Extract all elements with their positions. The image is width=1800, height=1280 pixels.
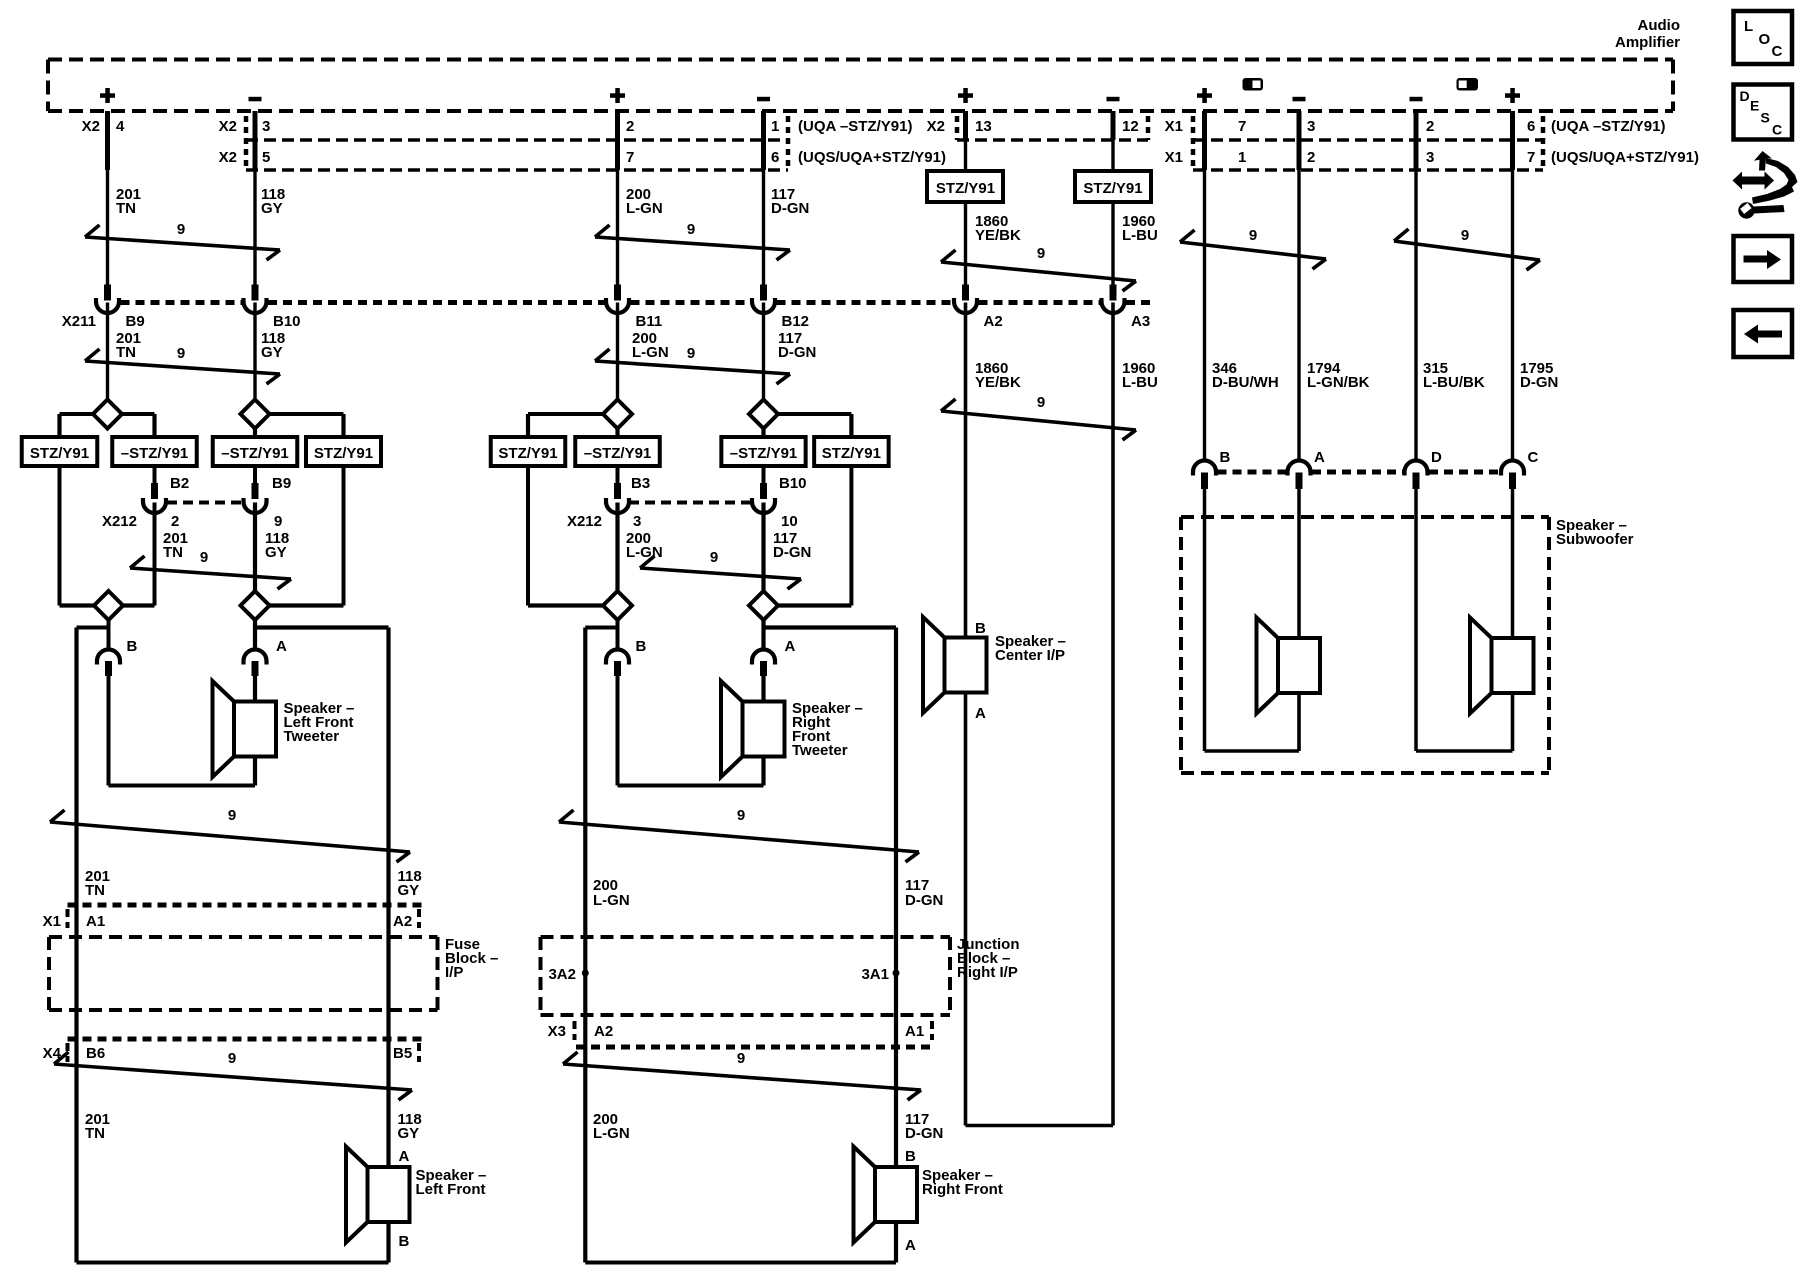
svg-text:1: 1 xyxy=(771,118,779,135)
svg-text:L-GN: L-GN xyxy=(593,892,630,909)
svg-text:B2: B2 xyxy=(170,475,189,492)
svg-text:7: 7 xyxy=(1238,118,1246,135)
svg-text:A: A xyxy=(905,1237,916,1254)
svg-text:X3: X3 xyxy=(548,1023,566,1040)
svg-text:GY: GY xyxy=(261,200,283,217)
svg-text:3A2: 3A2 xyxy=(548,966,576,983)
svg-text:STZ/Y91: STZ/Y91 xyxy=(498,445,557,462)
svg-text:D-GN: D-GN xyxy=(778,344,816,361)
svg-text:STZ/Y91: STZ/Y91 xyxy=(1083,180,1142,197)
svg-text:A1: A1 xyxy=(905,1023,924,1040)
svg-text:9: 9 xyxy=(1461,227,1469,244)
svg-text:B5: B5 xyxy=(393,1045,412,1062)
svg-text:A: A xyxy=(276,638,287,655)
svg-text:S: S xyxy=(1761,110,1770,126)
svg-text:YE/BK: YE/BK xyxy=(975,374,1021,391)
svg-text:L-GN: L-GN xyxy=(593,1125,630,1142)
svg-text:B10: B10 xyxy=(779,475,807,492)
svg-text:YE/BK: YE/BK xyxy=(975,227,1021,244)
svg-text:Audio: Audio xyxy=(1638,17,1681,34)
svg-text:TN: TN xyxy=(85,882,105,899)
svg-text:7: 7 xyxy=(626,149,634,166)
svg-text:X1: X1 xyxy=(43,913,61,930)
svg-text:B11: B11 xyxy=(636,313,663,330)
svg-text:STZ/Y91: STZ/Y91 xyxy=(822,445,881,462)
svg-text:B: B xyxy=(905,1148,916,1165)
svg-text:A: A xyxy=(785,638,796,655)
svg-text:Left Front: Left Front xyxy=(416,1181,486,1198)
svg-text:B12: B12 xyxy=(782,313,810,330)
svg-text:GY: GY xyxy=(398,882,420,899)
svg-text:2: 2 xyxy=(1426,118,1434,135)
svg-text:X2: X2 xyxy=(219,118,237,135)
svg-text:7: 7 xyxy=(1527,149,1535,166)
svg-text:X212: X212 xyxy=(567,513,602,530)
svg-text:L-BU: L-BU xyxy=(1122,374,1158,391)
svg-text:D: D xyxy=(1740,88,1750,104)
svg-text:X2: X2 xyxy=(219,149,237,166)
svg-text:A: A xyxy=(975,705,986,722)
svg-text:9: 9 xyxy=(710,549,718,566)
svg-text:C: C xyxy=(1772,43,1783,60)
svg-text:L-GN: L-GN xyxy=(626,544,663,561)
svg-text:B: B xyxy=(975,620,986,637)
svg-text:12: 12 xyxy=(1122,118,1139,135)
svg-text:L-BU: L-BU xyxy=(1122,227,1158,244)
svg-text:A3: A3 xyxy=(1131,313,1150,330)
svg-text:D-GN: D-GN xyxy=(905,1125,943,1142)
svg-text:D-GN: D-GN xyxy=(773,544,811,561)
svg-text:3: 3 xyxy=(262,118,270,135)
svg-text:B9: B9 xyxy=(126,313,145,330)
svg-text:Amplifier: Amplifier xyxy=(1615,34,1680,51)
svg-text:B: B xyxy=(127,638,138,655)
svg-text:3: 3 xyxy=(1426,149,1434,166)
svg-text:–STZ/Y91: –STZ/Y91 xyxy=(730,445,798,462)
svg-text:6: 6 xyxy=(1527,118,1535,135)
svg-text:9: 9 xyxy=(200,549,208,566)
svg-text:X212: X212 xyxy=(102,513,137,530)
svg-text:B3: B3 xyxy=(631,475,650,492)
svg-text:9: 9 xyxy=(687,221,695,238)
svg-text:D-GN: D-GN xyxy=(771,200,809,217)
svg-text:–STZ/Y91: –STZ/Y91 xyxy=(584,445,652,462)
svg-text:STZ/Y91: STZ/Y91 xyxy=(314,445,373,462)
svg-text:Subwoofer: Subwoofer xyxy=(1556,531,1634,548)
svg-text:1: 1 xyxy=(1238,149,1246,166)
svg-text:TN: TN xyxy=(116,200,136,217)
svg-text:(UQA –STZ/Y91): (UQA –STZ/Y91) xyxy=(1551,118,1665,135)
svg-text:STZ/Y91: STZ/Y91 xyxy=(936,180,995,197)
svg-text:X211: X211 xyxy=(62,313,96,330)
svg-text:B: B xyxy=(1220,449,1231,466)
svg-text:L-GN: L-GN xyxy=(632,344,669,361)
svg-text:O: O xyxy=(1759,31,1771,48)
svg-text:D: D xyxy=(1431,449,1442,466)
svg-text:2: 2 xyxy=(626,118,634,135)
svg-text:L-GN/BK: L-GN/BK xyxy=(1307,374,1370,391)
svg-text:GY: GY xyxy=(398,1125,420,1142)
svg-text:Right Front: Right Front xyxy=(922,1181,1003,1198)
svg-text:A2: A2 xyxy=(594,1023,613,1040)
svg-text:13: 13 xyxy=(975,118,992,135)
svg-text:6: 6 xyxy=(771,149,779,166)
svg-text:A2: A2 xyxy=(984,313,1003,330)
svg-text:B9: B9 xyxy=(272,475,291,492)
svg-text:B6: B6 xyxy=(86,1045,105,1062)
svg-text:L-GN: L-GN xyxy=(626,200,663,217)
svg-text:A: A xyxy=(1314,449,1325,466)
svg-text:9: 9 xyxy=(1037,394,1045,411)
svg-text:9: 9 xyxy=(1037,245,1045,262)
svg-text:STZ/Y91: STZ/Y91 xyxy=(30,445,89,462)
svg-text:5: 5 xyxy=(262,149,270,166)
svg-text:9: 9 xyxy=(687,345,695,362)
svg-text:3: 3 xyxy=(633,513,641,530)
svg-text:10: 10 xyxy=(781,513,798,530)
svg-text:I/P: I/P xyxy=(445,964,463,981)
svg-text:X2: X2 xyxy=(927,118,945,135)
svg-text:X1: X1 xyxy=(1165,118,1183,135)
svg-text:X1: X1 xyxy=(1165,149,1183,166)
svg-text:D-BU/WH: D-BU/WH xyxy=(1212,374,1279,391)
svg-text:C: C xyxy=(1772,122,1782,138)
svg-text:Tweeter: Tweeter xyxy=(284,728,340,745)
svg-text:A1: A1 xyxy=(86,913,105,930)
svg-text:TN: TN xyxy=(116,344,136,361)
svg-text:(UQS/UQA+STZ/Y91): (UQS/UQA+STZ/Y91) xyxy=(1551,149,1699,166)
svg-text:Center I/P: Center I/P xyxy=(995,647,1065,664)
svg-text:L: L xyxy=(1744,18,1753,35)
svg-text:2: 2 xyxy=(171,513,179,530)
svg-text:B: B xyxy=(399,1233,410,1250)
svg-text:–STZ/Y91: –STZ/Y91 xyxy=(221,445,289,462)
svg-text:(UQA –STZ/Y91): (UQA –STZ/Y91) xyxy=(798,118,912,135)
svg-text:X2: X2 xyxy=(82,118,100,135)
svg-text:4: 4 xyxy=(116,118,125,135)
svg-text:3A1: 3A1 xyxy=(861,966,889,983)
svg-text:E: E xyxy=(1750,98,1759,114)
svg-text:9: 9 xyxy=(228,807,236,824)
svg-text:9: 9 xyxy=(737,1050,745,1067)
svg-text:B10: B10 xyxy=(273,313,301,330)
svg-text:2: 2 xyxy=(1307,149,1315,166)
svg-text:A: A xyxy=(399,1148,410,1165)
svg-text:Right I/P: Right I/P xyxy=(957,964,1018,981)
svg-text:Tweeter: Tweeter xyxy=(792,742,848,759)
svg-text:TN: TN xyxy=(163,544,183,561)
svg-text:9: 9 xyxy=(1249,227,1257,244)
svg-text:(UQS/UQA+STZ/Y91): (UQS/UQA+STZ/Y91) xyxy=(798,149,946,166)
svg-text:9: 9 xyxy=(177,345,185,362)
svg-text:GY: GY xyxy=(261,344,283,361)
svg-text:D-GN: D-GN xyxy=(1520,374,1558,391)
svg-text:B: B xyxy=(636,638,647,655)
svg-text:D-GN: D-GN xyxy=(905,892,943,909)
svg-text:GY: GY xyxy=(265,544,287,561)
svg-text:L-BU/BK: L-BU/BK xyxy=(1423,374,1485,391)
svg-text:9: 9 xyxy=(737,807,745,824)
svg-text:3: 3 xyxy=(1307,118,1315,135)
svg-text:C: C xyxy=(1528,449,1539,466)
svg-text:9: 9 xyxy=(228,1050,236,1067)
svg-text:9: 9 xyxy=(274,513,282,530)
svg-text:–STZ/Y91: –STZ/Y91 xyxy=(121,445,189,462)
svg-text:9: 9 xyxy=(177,221,185,238)
svg-text:A2: A2 xyxy=(393,913,412,930)
svg-text:TN: TN xyxy=(85,1125,105,1142)
